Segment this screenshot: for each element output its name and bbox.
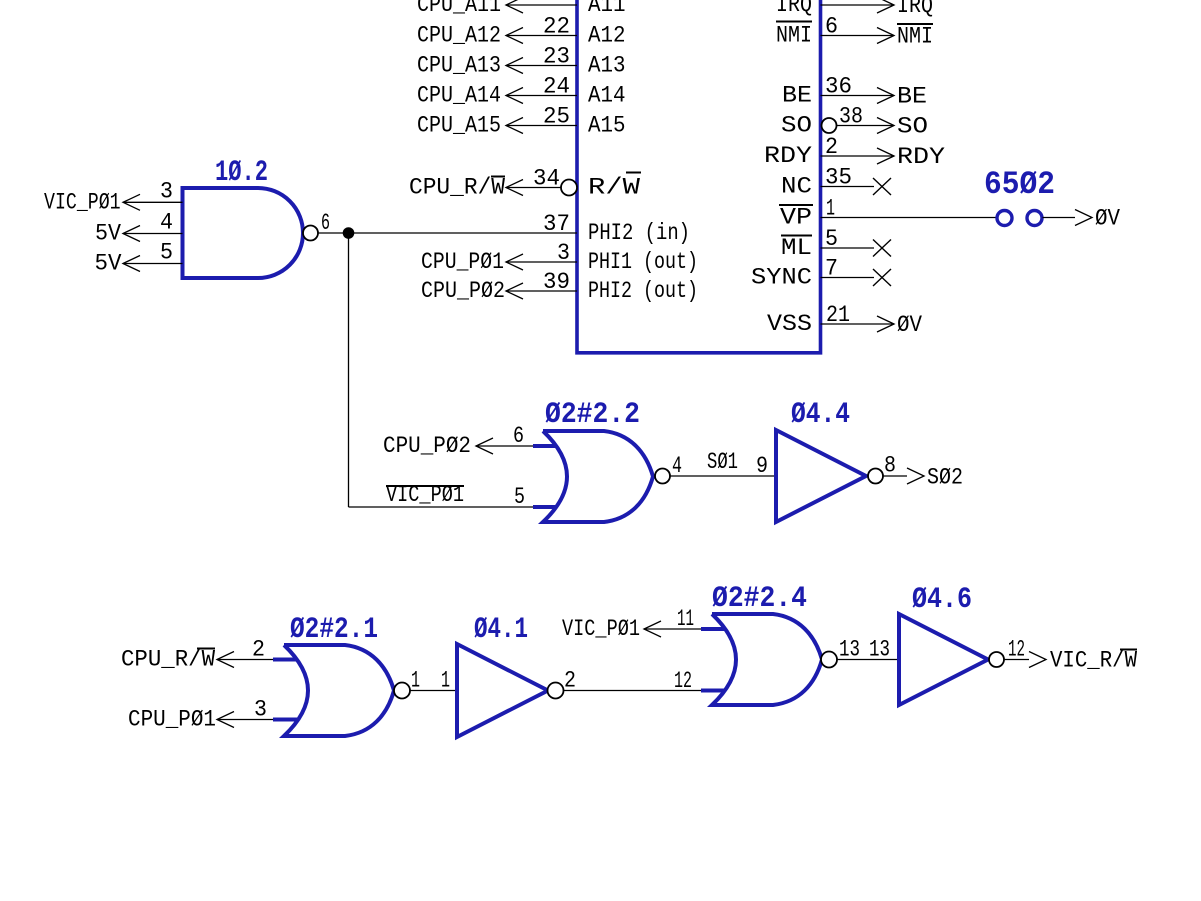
svg-text:5V: 5V [95,221,121,247]
stub pin 11 [701,627,725,631]
no-connect X NC [873,178,891,195]
svg-text:BE: BE [897,84,927,110]
svg-text:A13: A13 [588,53,626,79]
svg-text:5: 5 [514,484,525,510]
svg-text:CPU_PØ1: CPU_PØ1 [421,249,504,275]
OR gate 02#2.2 body [543,431,653,522]
svg-text:12: 12 [674,668,692,694]
svg-text:Ø2#2.4: Ø2#2.4 [712,582,807,616]
svg-text:CPU_PØ2: CPU_PØ2 [421,278,505,304]
stub pin 12 [701,689,725,693]
svg-text:4: 4 [160,210,173,236]
wire CPU_P02 gate [476,445,533,447]
wire S01 [670,475,776,477]
svg-text:13: 13 [869,637,890,663]
svg-text:1: 1 [411,668,420,694]
svg-text:2: 2 [825,134,838,160]
svg-text:2: 2 [564,668,576,694]
svg-text:NMI: NMI [897,24,933,50]
stub pin 6 [533,444,556,448]
wire VIC_P01 pin 11 [644,628,701,630]
arrow VIC_R/W [1029,652,1046,668]
arrow BE [877,88,894,104]
svg-text:Ø2#2.1: Ø2#2.1 [290,613,378,647]
bubble output pin 1 [394,683,410,699]
svg-text:PHI1 (out): PHI1 (out) [588,249,698,275]
no-connect X ML [873,240,891,257]
svg-text:CPU_A12: CPU_A12 [417,23,501,49]
wire CPU_A12 [506,35,577,37]
svg-text:13: 13 [839,637,860,663]
svg-text:3: 3 [254,697,267,723]
svg-text:RDY: RDY [764,143,812,169]
jumper circle 1 on VP net [997,211,1012,226]
arrow CPU_A12 [506,28,523,44]
wire CPU_A11 [506,4,577,6]
svg-text:1: 1 [441,668,450,694]
arrow NAND input 3 [123,194,140,210]
stub pin 5 [533,505,556,509]
svg-text:12: 12 [1008,637,1025,663]
wire NAND input 5 [123,263,183,265]
svg-text:RDY: RDY [897,144,945,170]
svg-text:VP: VP [780,205,812,231]
svg-text:2: 2 [252,637,265,663]
inverter 04.6 body [899,614,988,705]
svg-text:CPU_A15: CPU_A15 [417,113,501,139]
IC U1 6502 box [577,0,821,353]
arrow CPU_R/W [506,180,523,196]
arrow CPU_P02 gate [476,438,493,454]
wire junction to OR gate pin 5 [349,506,534,508]
arrow CPU_P01 [506,254,523,270]
wire CPU_R/W pin 34 [506,187,561,189]
svg-text:38: 38 [839,104,863,130]
arrow CPU_P01 bottom [217,712,234,728]
wire VIC_R/W [1004,659,1029,661]
svg-text:ØV: ØV [1095,206,1120,232]
svg-text:34: 34 [533,166,560,192]
svg-text:CPU_A11: CPU_A11 [417,0,501,18]
svg-text:Ø4.4: Ø4.4 [791,398,850,432]
arrow VIC_P01 pin 11 [644,621,661,637]
svg-text:39: 39 [543,269,570,295]
wire PHI2 in net [318,232,577,234]
wire NC [821,186,875,188]
svg-text:CPU_PØ1: CPU_PØ1 [128,707,216,733]
wire CPU_A14 [506,95,577,97]
wire NMI [821,35,895,37]
overline NMI pin name [776,21,812,23]
svg-text:IRQ: IRQ [897,0,933,19]
arrow S02 [907,468,924,484]
svg-text:6: 6 [321,210,330,236]
svg-text:5V: 5V [95,251,122,277]
svg-text:NC: NC [781,174,812,200]
svg-text:6: 6 [825,14,838,40]
bubble output pin 8 [868,469,883,484]
wire CPU_R/W bottom [217,659,273,661]
svg-text:CPU_A14: CPU_A14 [417,83,501,109]
svg-text:A14: A14 [588,83,626,109]
arrow SO [877,118,894,134]
svg-text:5: 5 [825,226,838,252]
svg-text:SO: SO [897,114,928,140]
svg-text:CPU_A13: CPU_A13 [417,53,501,79]
wire CPU_A13 [506,65,577,67]
arrow RDY [877,148,894,164]
arrow NAND input 5 [123,256,140,272]
svg-text:NMI: NMI [776,23,812,49]
jumper circle 2 on VP net [1027,211,1042,226]
svg-text:35: 35 [825,165,852,191]
arrow CPU_R/W bottom [217,652,234,668]
svg-text:8: 8 [884,453,896,479]
stub pin 3 [273,718,297,722]
overline ML pin name [781,235,812,237]
svg-text:11: 11 [677,606,694,632]
wire CPU_A15 [506,125,577,127]
wire junction down [348,233,350,507]
bubble NAND output pin 6 [303,226,318,241]
arrow CPU_A14 [506,88,523,104]
svg-text:SØ1: SØ1 [707,449,738,475]
overline W of VIC_R/W [1120,649,1137,651]
bubble pin 38 SO [822,118,837,133]
arrow CPU_A15 [506,118,523,134]
svg-text:23: 23 [543,44,570,70]
svg-text:SØ2: SØ2 [927,465,963,491]
svg-text:SO: SO [781,113,812,139]
svg-text:Ø4.1: Ø4.1 [474,613,528,647]
svg-text:36: 36 [825,74,852,100]
wire CPU_P01 [506,261,577,263]
wire RDY [821,155,895,157]
svg-text:CPU_PØ2: CPU_PØ2 [383,433,471,459]
svg-text:ML: ML [781,235,812,261]
wire pin1 to inv [410,690,457,692]
svg-text:6: 6 [513,423,524,449]
svg-text:VIC_PØ1: VIC_PØ1 [44,189,121,215]
bubble pin 34 R/W [561,180,577,196]
wire pin 13 to inv [837,659,899,661]
svg-text:5: 5 [160,240,173,266]
svg-text:65Ø2: 65Ø2 [984,166,1055,203]
arrow CPU_A11 [506,0,523,13]
svg-text:A15: A15 [588,113,626,139]
svg-text:A12: A12 [588,23,626,49]
wire CPU_P01 bottom [217,719,273,721]
svg-text:Ø4.6: Ø4.6 [912,583,972,617]
stub pin 2 [273,658,297,662]
inverter 04.1 body [457,644,548,737]
svg-text:4: 4 [672,453,682,479]
arrow VSS 0V [877,316,894,332]
overline W of R/W pin name [626,172,641,174]
wire NAND input 3 [123,201,183,203]
arrow CPU_P02 top [506,283,523,299]
NAND gate U10.2 body [183,188,304,278]
svg-text:25: 25 [543,104,570,130]
arrow 0V right [1075,210,1092,226]
wire jumper to 0V arrow [1043,217,1076,219]
arrow NAND input 4 [123,226,140,242]
arrow IRQ [877,0,894,13]
svg-text:CPU_R/W: CPU_R/W [121,647,215,673]
svg-text:7: 7 [825,256,838,282]
svg-text:3: 3 [557,240,570,266]
wire NAND input 4 [123,233,183,235]
wire VP to jumper [821,217,997,219]
svg-text:VIC_PØ1: VIC_PØ1 [562,616,640,642]
bubble output pin 2 inv [548,683,564,699]
svg-text:37: 37 [543,211,570,237]
wire S02 [883,475,907,477]
svg-text:R/W: R/W [588,175,640,201]
svg-text:IRQ: IRQ [776,0,812,18]
svg-text:Ø2#2.2: Ø2#2.2 [545,398,640,432]
inverter 04.4 body [776,430,866,522]
svg-text:SYNC: SYNC [751,265,812,291]
bubble output pin 4 [655,469,670,484]
svg-text:PHI2 (in): PHI2 (in) [588,220,690,246]
OR gate 02#2.1 body [284,645,394,736]
svg-text:24: 24 [543,74,570,100]
svg-text:VIC_R/W: VIC_R/W [1050,648,1137,674]
svg-text:1Ø.2: 1Ø.2 [215,156,268,190]
wire VSS [821,323,895,325]
arrow CPU_A13 [506,58,523,74]
overline NMI net label [897,23,933,25]
no-connect X SYNC [873,269,891,286]
svg-text:9: 9 [756,453,768,479]
svg-text:PHI2 (out): PHI2 (out) [588,278,698,304]
wire ML [821,247,875,249]
svg-text:1: 1 [826,196,835,222]
svg-text:3: 3 [160,178,173,204]
junction dot PHI2 net [343,227,355,239]
svg-text:22: 22 [543,14,570,40]
bubble output pin 12 inv [989,652,1004,667]
bubble output pin 13 [821,652,837,668]
OR gate 02#2.4 body [712,614,822,705]
svg-text:21: 21 [826,302,850,328]
overline VP pin name [779,204,813,206]
wire IRQ [821,4,895,6]
wire SYNC [821,277,875,279]
svg-text:BE: BE [782,83,812,109]
wire SO [837,125,894,127]
svg-text:VSS: VSS [767,311,812,337]
wire inv to 02#2.4 pin 12 [564,690,702,692]
svg-text:A11: A11 [588,0,626,18]
svg-text:CPU_R/W: CPU_R/W [409,175,505,201]
arrow NMI [877,28,894,44]
overline W of CPU_R/W bottom [197,648,215,650]
overline W of CPU_R/W [491,176,505,178]
svg-text:ØV: ØV [897,312,922,338]
wire CPU_P02 top [506,290,577,292]
wire BE [821,95,895,97]
overline VIC_P01 on wire [386,485,464,487]
